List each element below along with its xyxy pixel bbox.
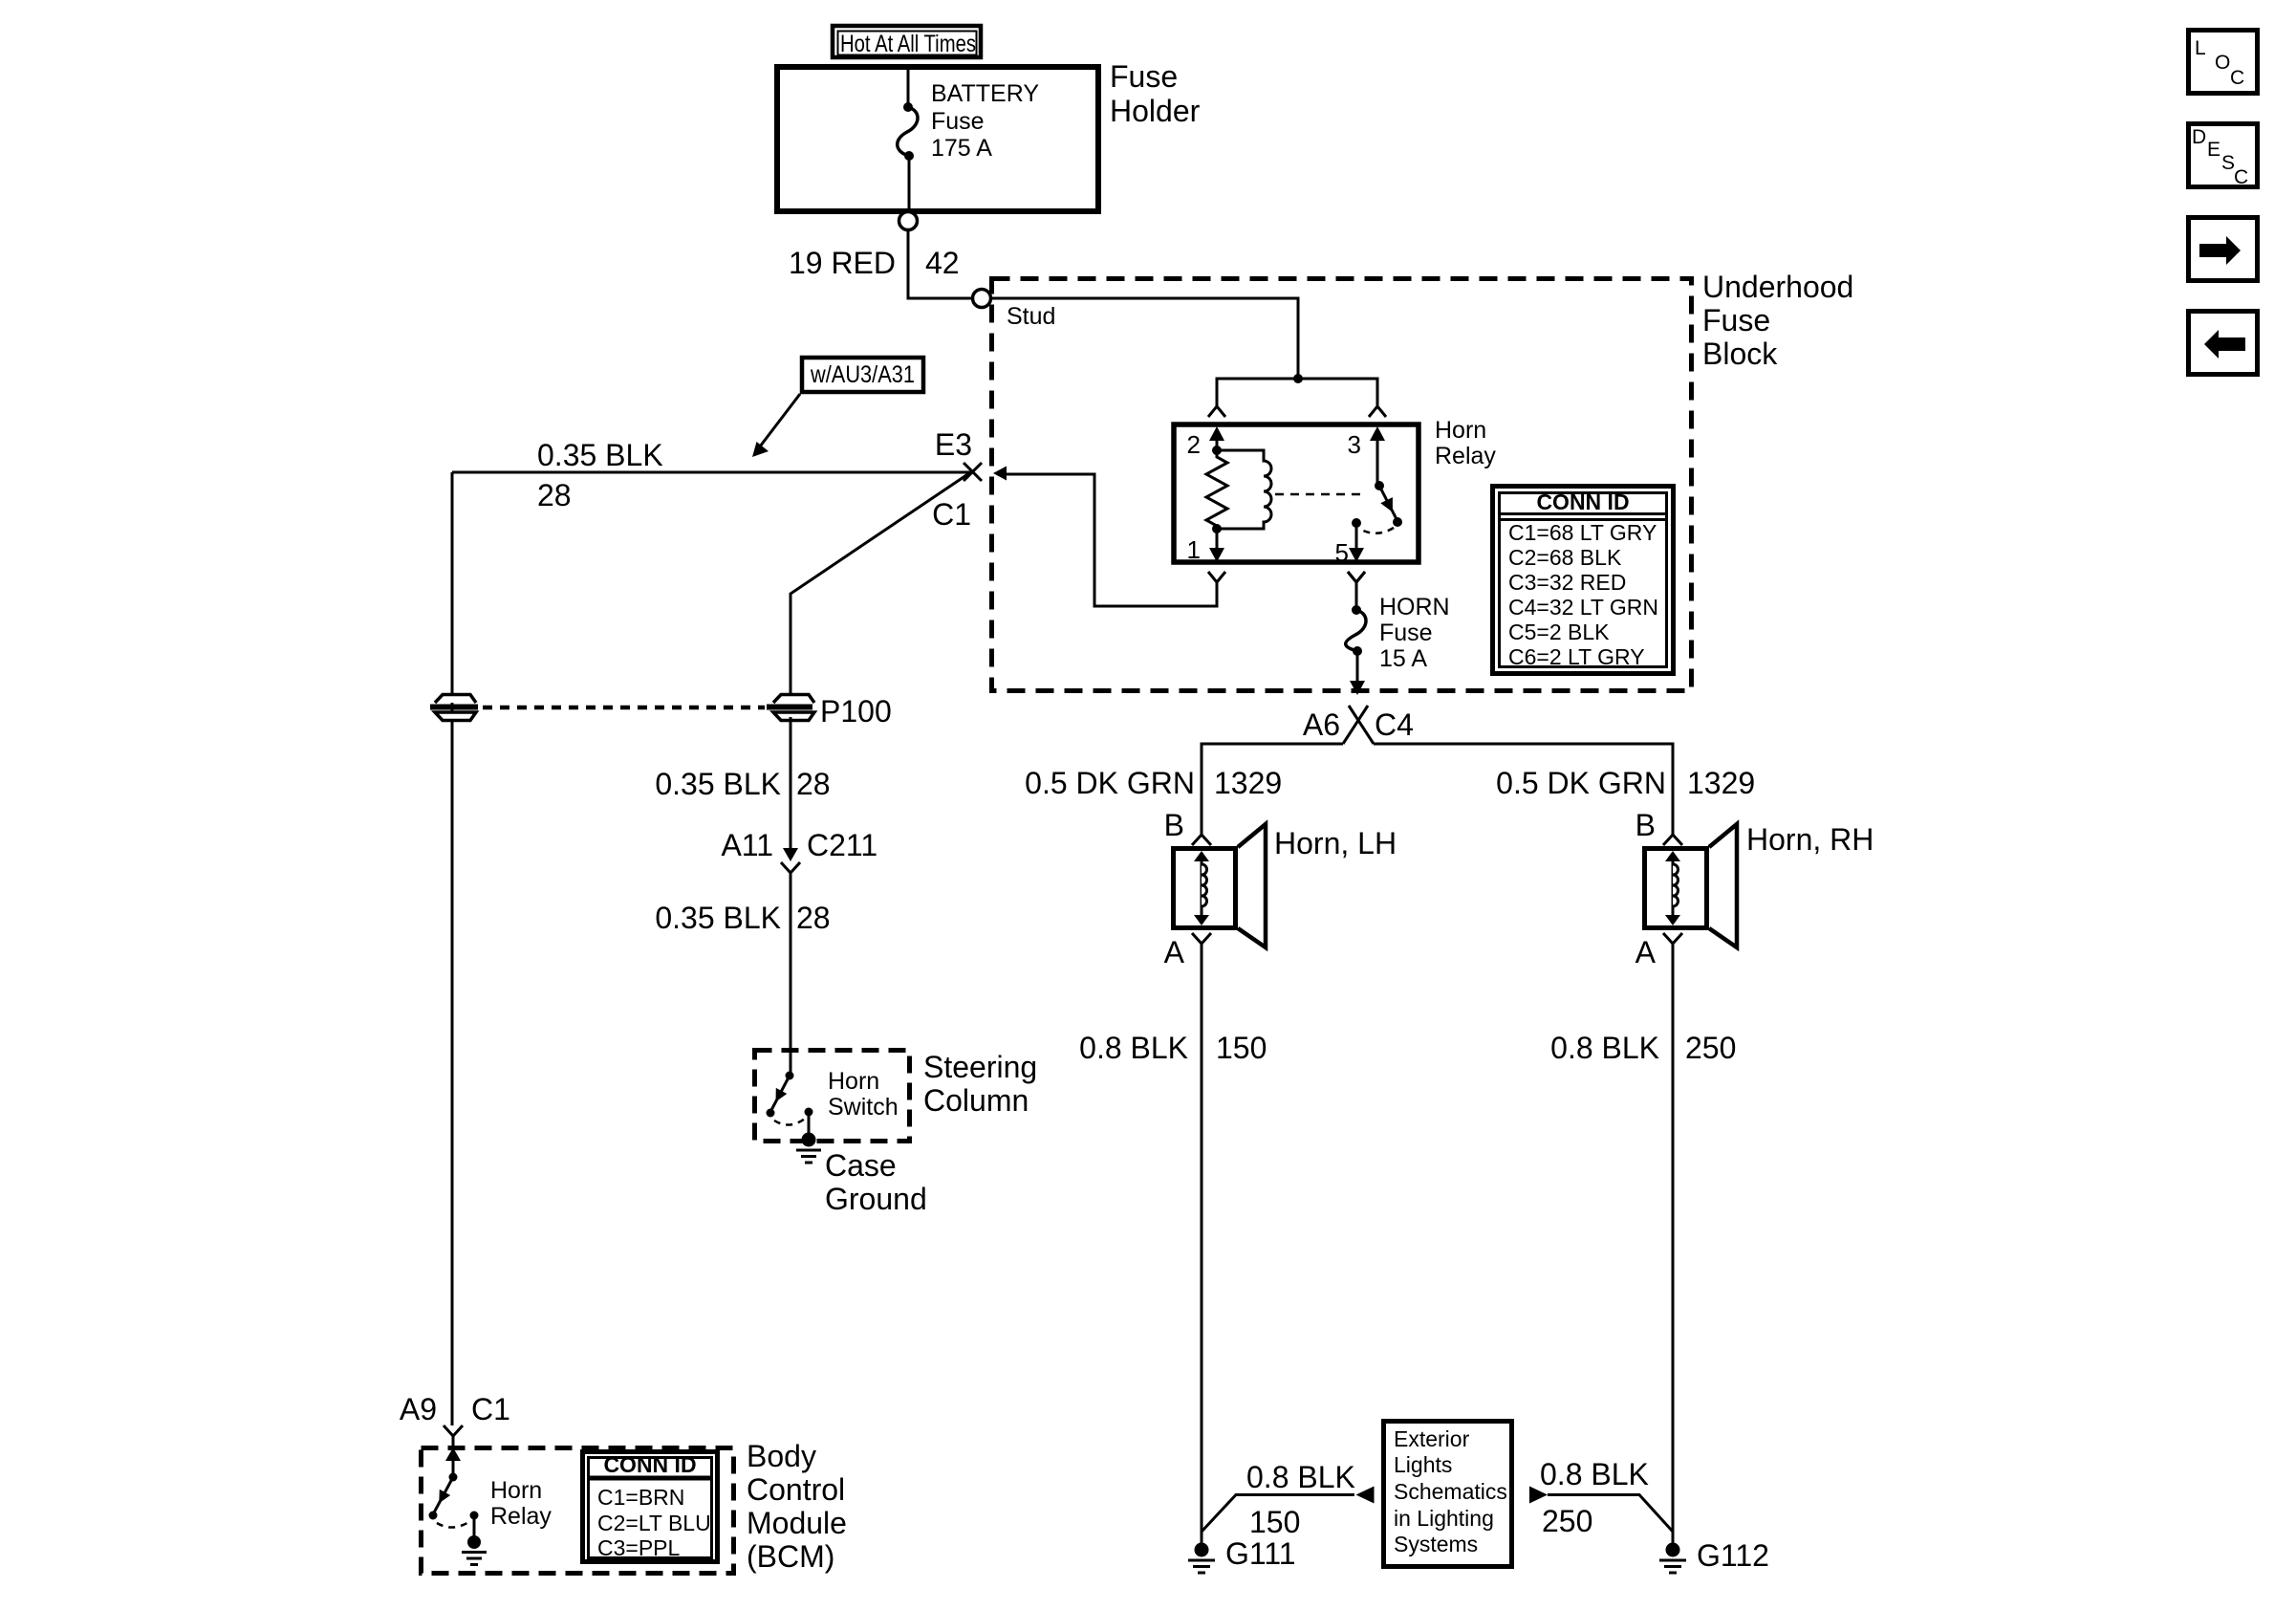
svg-text:250: 250 — [1542, 1504, 1592, 1538]
svg-text:O: O — [2215, 52, 2230, 74]
ground G111 — [1188, 1543, 1215, 1574]
svg-text:S: S — [2221, 152, 2235, 174]
svg-text:1329: 1329 — [1687, 766, 1755, 800]
svg-text:HORN: HORN — [1379, 594, 1450, 620]
terminal circle — [899, 212, 918, 230]
underhood fuse block label — [1702, 270, 1853, 371]
CONN ID table (underhood) — [1493, 487, 1674, 674]
steering column dashed box — [755, 1051, 910, 1142]
svg-text:Control: Control — [747, 1472, 845, 1507]
svg-text:(BCM): (BCM) — [747, 1539, 834, 1574]
svg-text:Relay: Relay — [490, 1503, 552, 1530]
svg-text:C: C — [2234, 166, 2248, 188]
stud circle — [973, 290, 991, 308]
horn RH box — [1645, 849, 1707, 928]
svg-text:C1=BRN: C1=BRN — [597, 1485, 684, 1510]
wire horn RH to G112 — [1672, 944, 1675, 1543]
horn switch pivot dot — [786, 1072, 794, 1080]
wire to C211 — [790, 717, 792, 858]
wire fuse to A6 — [1350, 651, 1365, 695]
wire into battery fuse — [907, 67, 910, 107]
svg-text:Systems: Systems — [1394, 1532, 1478, 1556]
svg-text:Block: Block — [1702, 337, 1778, 371]
svg-text:CONN ID: CONN ID — [603, 1452, 696, 1477]
svg-text:D: D — [2192, 126, 2206, 148]
back arrow icon box — [2189, 312, 2258, 375]
pin 2 node dot — [1212, 446, 1222, 455]
svg-text:A6: A6 — [1303, 707, 1340, 742]
wire A6 to horn LH — [1202, 744, 1343, 836]
svg-text:15 A: 15 A — [1379, 645, 1427, 672]
svg-text:0.8 BLK: 0.8 BLK — [1550, 1031, 1659, 1065]
svg-text:G112: G112 — [1697, 1538, 1769, 1573]
P100 dashed link — [483, 706, 765, 710]
svg-text:Ground: Ground — [825, 1182, 927, 1216]
diagonal wire to P100 branch — [791, 471, 972, 697]
CONN ID table (BCM) — [583, 1452, 718, 1562]
svg-text:Lights: Lights — [1394, 1452, 1452, 1477]
svg-text:C6=2 LT GRY: C6=2 LT GRY — [1508, 644, 1645, 669]
svg-text:C211: C211 — [807, 828, 877, 862]
wire pin1 to E3 — [1002, 474, 1217, 606]
svg-text:19 RED: 19 RED — [789, 246, 896, 280]
svg-text:C2=LT BLU: C2=LT BLU — [597, 1511, 711, 1535]
svg-text:C4=32 LT GRN: C4=32 LT GRN — [1508, 595, 1658, 620]
horn switch arm — [770, 1076, 790, 1112]
svg-text:BATTERY: BATTERY — [931, 80, 1039, 107]
A6 C4 splice X — [1343, 706, 1374, 744]
svg-text:Horn: Horn — [490, 1477, 542, 1504]
steering column label — [923, 1050, 1037, 1118]
pin 1 terminal arrow — [1209, 529, 1224, 562]
svg-text:28: 28 — [796, 901, 831, 935]
svg-text:0.5 DK GRN: 0.5 DK GRN — [1025, 766, 1195, 800]
switch arm end dot — [1393, 517, 1402, 527]
BCM horn relay label — [490, 1477, 552, 1530]
ground G112 — [1659, 1543, 1686, 1574]
svg-text:28: 28 — [537, 478, 572, 512]
HORN fuse label — [1379, 594, 1450, 672]
horn switch arm end dot — [767, 1109, 775, 1118]
fuse holder box — [777, 67, 1098, 211]
svg-text:C5=2 BLK: C5=2 BLK — [1508, 620, 1610, 644]
switch travel dashed arc — [1359, 528, 1394, 533]
svg-text:C: C — [2230, 67, 2244, 89]
HORN fuse chevron — [1348, 572, 1365, 582]
P100 pass-through (right grommet) — [767, 695, 814, 721]
svg-text:L: L — [2195, 37, 2206, 59]
horn switch travel dashed arc — [774, 1119, 805, 1125]
branch wire to exterior lights (left) — [1202, 1495, 1354, 1533]
svg-text:150: 150 — [1216, 1031, 1267, 1065]
body control module label — [747, 1439, 847, 1574]
horn LH A chevron — [1192, 933, 1211, 944]
case ground label — [825, 1148, 927, 1216]
pin 1 node dot — [1212, 524, 1222, 533]
svg-text:250: 250 — [1685, 1031, 1736, 1065]
switch pivot dot — [1375, 481, 1384, 490]
svg-text:G111: G111 — [1225, 1536, 1296, 1571]
pin 3 chevron — [1369, 406, 1386, 417]
svg-text:in Lighting: in Lighting — [1394, 1506, 1494, 1531]
svg-text:Fuse: Fuse — [1379, 620, 1433, 646]
svg-text:Exterior: Exterior — [1394, 1426, 1470, 1451]
off-page triangle (left) — [1356, 1487, 1375, 1504]
battery fuse BATTERY 175A — [898, 102, 918, 161]
svg-text:CONN ID: CONN ID — [1536, 490, 1629, 514]
BCM relay arm — [433, 1477, 453, 1514]
relay resistor — [1206, 450, 1227, 529]
svg-text:3: 3 — [1348, 430, 1361, 459]
svg-text:1: 1 — [1187, 535, 1201, 564]
horn RH B chevron — [1663, 835, 1682, 845]
exterior lights schematics box — [1384, 1422, 1512, 1567]
svg-text:1329: 1329 — [1214, 766, 1282, 800]
BCM ground symbol — [462, 1535, 487, 1565]
svg-text:150: 150 — [1249, 1505, 1300, 1539]
E3 arrowhead — [993, 467, 1007, 481]
svg-text:Switch: Switch — [828, 1094, 899, 1120]
svg-text:Column: Column — [923, 1083, 1029, 1118]
connector C211 arrow — [783, 848, 798, 861]
svg-text:C1=68 LT GRY: C1=68 LT GRY — [1508, 520, 1657, 545]
battery fuse label — [931, 80, 1039, 162]
svg-text:Holder: Holder — [1110, 94, 1201, 128]
P100 pass-through (left grommet) — [430, 695, 478, 721]
svg-text:0.8 BLK: 0.8 BLK — [1540, 1457, 1649, 1491]
svg-text:0.35 BLK: 0.35 BLK — [655, 901, 781, 935]
branch wire to exterior lights (right) — [1548, 1495, 1673, 1533]
Hot At All Times label box — [833, 26, 981, 57]
BCM relay travel dashed arc — [437, 1521, 470, 1528]
svg-text:E: E — [2207, 139, 2220, 161]
underhood fuse block dashed box — [992, 279, 1692, 691]
horn LH speaker cone — [1238, 824, 1266, 947]
svg-text:5: 5 — [1335, 538, 1349, 567]
pin 2 chevron — [1208, 406, 1225, 417]
svg-text:A: A — [1164, 935, 1185, 969]
coil to switch dashed link — [1275, 493, 1365, 496]
svg-text:Fuse: Fuse — [931, 108, 985, 135]
pin 5 contact dot — [1352, 518, 1361, 528]
horn switch label — [828, 1068, 899, 1120]
LOC icon box — [2189, 31, 2258, 94]
wire to HORN fuse — [1355, 582, 1358, 610]
horn relay label — [1435, 417, 1496, 469]
wire to BCM ground — [473, 1515, 476, 1538]
connector C211 chevron — [781, 862, 800, 873]
svg-text:0.35 BLK: 0.35 BLK — [655, 767, 781, 801]
svg-text:Fuse: Fuse — [1702, 303, 1770, 337]
connector A9 chevron — [444, 1425, 463, 1436]
relay switch arm — [1379, 486, 1397, 521]
svg-text:Case: Case — [825, 1148, 897, 1183]
svg-text:C4: C4 — [1375, 707, 1414, 742]
svg-text:Hot At All Times: Hot At All Times — [840, 31, 976, 57]
wire to case ground — [808, 1112, 811, 1136]
feed bar to relay pins — [1217, 379, 1377, 406]
BCM relay pivot dot — [449, 1473, 458, 1482]
pin 2 terminal arrow — [1209, 426, 1224, 450]
wire 0.35 BLK 28 horizontal — [452, 471, 971, 474]
svg-text:2: 2 — [1187, 430, 1201, 459]
junction dot — [1293, 374, 1303, 383]
svg-text:A: A — [1635, 935, 1657, 969]
svg-text:A9: A9 — [400, 1392, 437, 1426]
svg-text:Horn: Horn — [828, 1068, 879, 1095]
connector break X — [964, 463, 982, 481]
svg-text:Module: Module — [747, 1506, 847, 1540]
pin 5 terminal arrow — [1349, 523, 1364, 562]
pin 3 terminal arrow — [1370, 426, 1385, 486]
off-page triangle (right) — [1529, 1487, 1548, 1504]
left vertical wire 0.35 BLK — [451, 472, 454, 1425]
horn relay box — [1174, 424, 1419, 562]
svg-text:Relay: Relay — [1435, 443, 1496, 469]
svg-text:Body: Body — [747, 1439, 816, 1473]
svg-text:P100: P100 — [820, 694, 892, 729]
svg-text:Underhood: Underhood — [1702, 270, 1853, 304]
svg-text:175 A: 175 A — [931, 135, 992, 162]
forward arrow icon box — [2189, 218, 2258, 281]
horn RH speaker cone — [1709, 824, 1737, 947]
svg-text:Schematics: Schematics — [1394, 1479, 1507, 1504]
horn RH coil element — [1665, 851, 1680, 925]
svg-text:28: 28 — [796, 767, 831, 801]
svg-text:42: 42 — [925, 246, 960, 280]
svg-text:Horn, LH: Horn, LH — [1274, 826, 1397, 860]
pin 5 bottom chevron — [1348, 572, 1365, 582]
pin 1 bottom chevron — [1208, 572, 1225, 582]
BCM internal wire with arrow — [445, 1436, 461, 1477]
svg-text:C2=68 BLK: C2=68 BLK — [1508, 545, 1622, 570]
svg-text:E3: E3 — [935, 427, 972, 462]
HORN fuse 15A — [1346, 605, 1366, 656]
svg-text:C1: C1 — [932, 497, 971, 532]
svg-text:B: B — [1164, 808, 1184, 842]
svg-text:C3=32 RED: C3=32 RED — [1508, 570, 1626, 595]
BCM relay contact dot — [470, 1512, 479, 1520]
wire C4 to horn RH — [1374, 744, 1673, 836]
w/AU3/A31 callout box — [802, 358, 923, 392]
svg-text:0.8 BLK: 0.8 BLK — [1079, 1031, 1188, 1065]
DESC icon box — [2189, 124, 2258, 189]
svg-text:Horn, RH: Horn, RH — [1746, 822, 1874, 857]
wire C211 to steering column — [790, 873, 792, 1076]
svg-text:w/AU3/A31: w/AU3/A31 — [810, 361, 915, 388]
wire 19 RED 42 — [908, 230, 972, 299]
horn RH A chevron — [1663, 933, 1682, 944]
svg-text:B: B — [1635, 808, 1656, 842]
BCM dashed box — [422, 1448, 734, 1574]
relay coil — [1217, 450, 1271, 529]
BCM relay arm end dot — [429, 1512, 438, 1520]
svg-text:C3=PPL: C3=PPL — [597, 1535, 681, 1560]
svg-text:Steering: Steering — [923, 1050, 1037, 1084]
svg-text:0.8 BLK: 0.8 BLK — [1246, 1460, 1355, 1494]
horn switch contact dot — [805, 1108, 813, 1117]
svg-text:0.35 BLK: 0.35 BLK — [537, 438, 663, 472]
wire fuse to terminal — [908, 156, 911, 211]
horn LH coil element — [1194, 851, 1209, 925]
svg-text:Horn: Horn — [1435, 417, 1486, 444]
horn LH B chevron — [1192, 835, 1211, 845]
wire horn LH to G111 — [1201, 944, 1203, 1543]
svg-text:0.5 DK GRN: 0.5 DK GRN — [1496, 766, 1666, 800]
wire from stud into fuse block — [991, 298, 1299, 379]
svg-text:Fuse: Fuse — [1110, 59, 1178, 94]
svg-text:C1: C1 — [471, 1392, 510, 1426]
case ground symbol — [796, 1133, 821, 1164]
callout arrow — [752, 394, 800, 457]
svg-text:Stud: Stud — [1007, 303, 1055, 330]
svg-text:A11: A11 — [721, 828, 773, 862]
horn LH box — [1174, 849, 1236, 928]
